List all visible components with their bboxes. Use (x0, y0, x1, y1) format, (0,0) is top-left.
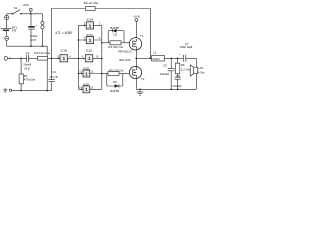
ground (bottom left) (3, 88, 8, 92)
svg-text:2,2 Ом: 2,2 Ом (181, 67, 190, 71)
svg-text:220мкФ: 220мкФ (172, 84, 181, 88)
op-amp buffer IC1A (79, 18, 102, 30)
svg-text:9: 9 (81, 54, 83, 58)
wire input bus (78, 25, 80, 89)
ground (under T2) (137, 89, 144, 96)
svg-text:R2 110 кОм: R2 110 кОм (35, 51, 50, 55)
op-amp buffer IC1C (78, 33, 102, 44)
op-amp buffer IC1B (52, 49, 86, 62)
wire left bottom rail (12, 90, 52, 92)
inductor L1 (152, 50, 165, 61)
svg-text:12: 12 (91, 70, 94, 74)
svg-text:L1: L1 (153, 50, 157, 54)
diode D1 (108, 26, 124, 36)
wire top power rail (7, 13, 43, 15)
svg-text:1000 мкФ: 1000 мкФ (180, 45, 193, 49)
capacitor C5 (160, 58, 175, 89)
switch S1 (12, 6, 22, 14)
svg-text:7: 7 (84, 36, 86, 40)
wire T2 gate (123, 73, 133, 75)
svg-text:100мк: 100мк (30, 34, 38, 38)
node feedback joins switch node (149, 57, 151, 59)
svg-text:15: 15 (91, 86, 94, 90)
svg-text:D1: D1 (113, 32, 117, 36)
svg-text:IRLU120: IRLU120 (119, 58, 131, 62)
svg-text:5: 5 (58, 54, 60, 58)
capacitor C2 (28, 14, 38, 47)
svg-text:R3 12 кОм: R3 12 кОм (84, 1, 99, 5)
wire R3 riser (52, 9, 86, 59)
wire battery minus (7, 46, 48, 90)
svg-text:10: 10 (96, 54, 99, 58)
wire switch node (136, 50, 151, 66)
svg-text:3: 3 (84, 21, 86, 25)
svg-text:LS1: LS1 (198, 66, 204, 70)
svg-text:4: 4 (69, 54, 71, 58)
svg-text:IC1B: IC1B (61, 49, 67, 53)
svg-text:R4 220 Ом: R4 220 Ом (108, 45, 122, 49)
svg-text:9 В: 9 В (12, 29, 16, 33)
transistor T2 (119, 58, 145, 89)
capacitor C4 (48, 58, 57, 90)
input connector (4, 56, 27, 60)
capacitor C6 (172, 74, 181, 90)
svg-text:C1: C1 (26, 51, 30, 55)
node R1 / resistor R1 (19, 58, 35, 92)
svg-text:+: + (179, 53, 181, 56)
svg-text:BAT85: BAT85 (110, 89, 119, 93)
terminal +9V right (133, 15, 139, 39)
svg-text:+9 В: +9 В (22, 3, 28, 7)
resistor R6 (175, 58, 189, 74)
svg-text:8 Ом: 8 Ом (198, 71, 205, 75)
svg-text:T1: T1 (140, 34, 144, 38)
svg-text:IC1A: IC1A (87, 18, 93, 22)
op-amp buffer IC1E (78, 66, 103, 77)
wire right bottom rail (136, 88, 196, 90)
svg-text:S1: S1 (14, 6, 18, 10)
op-amp buffer IC1F (79, 82, 102, 93)
svg-text:+: + (36, 24, 38, 27)
capacitor C1 (23, 51, 37, 70)
resistor R5 (102, 68, 124, 86)
svg-text:T2: T2 (141, 77, 145, 81)
battery BT1 (1, 14, 18, 46)
resistor R2 (35, 51, 52, 60)
svg-text:C6: C6 (176, 74, 180, 78)
svg-text:63 В: 63 В (24, 66, 30, 70)
resistor R4 (101, 31, 124, 49)
svg-text:40 В: 40 В (31, 38, 37, 42)
node A (R2/R3/C4/IC1B) (51, 57, 53, 59)
svg-text:6: 6 (99, 36, 101, 40)
svg-text:C4: C4 (52, 70, 56, 74)
diode D2 (107, 80, 123, 93)
svg-text:D2: D2 (113, 80, 117, 84)
terminal ground lug (9, 89, 11, 91)
terminal +9V left (22, 3, 32, 15)
svg-text:IC1D: IC1D (86, 49, 93, 53)
svg-text:BAT85: BAT85 (110, 26, 119, 30)
svg-text:C5: C5 (163, 63, 167, 67)
svg-text:470 кОм: 470 кОм (24, 78, 35, 82)
svg-text:10мкФ: 10мкФ (23, 63, 31, 67)
op-amp buffer IC1D (81, 49, 102, 62)
loudspeaker LS1 (190, 58, 204, 89)
svg-text:IRFU9120: IRFU9120 (118, 50, 132, 54)
svg-text:40мкГн: 40мкГн (152, 58, 161, 61)
capacitor C7 (179, 42, 197, 62)
connector X1 (41, 14, 44, 47)
svg-text:+9 В: +9 В (133, 15, 139, 19)
svg-text:270 пФ: 270 пФ (49, 75, 57, 79)
wire output bus (101, 25, 103, 89)
transistor T1 (118, 34, 143, 53)
wire output node (165, 57, 184, 59)
resistor R3 (84, 1, 99, 10)
wire R3 feedback run (95, 9, 150, 59)
svg-text:2: 2 (99, 21, 101, 25)
wire T1 gate (124, 42, 132, 44)
svg-text:330мкФ: 330мкФ (160, 72, 169, 76)
svg-text:IC1 = 4050: IC1 = 4050 (56, 31, 73, 35)
